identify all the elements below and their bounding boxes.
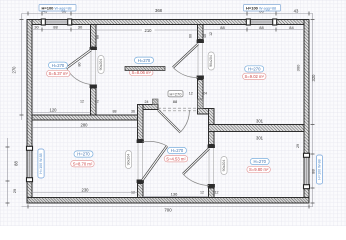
- door D1 swing arc: [67, 68, 92, 85]
- svg-text:12: 12: [215, 191, 219, 195]
- svg-text:88: 88: [311, 169, 316, 174]
- svg-text:301: 301: [256, 136, 264, 141]
- svg-text:368: 368: [155, 8, 163, 13]
- svg-text:88: 88: [113, 110, 117, 114]
- interior wall W2 upper segment: [138, 105, 144, 140]
- svg-text:43: 43: [294, 9, 299, 14]
- top dimension texts: [43, 8, 299, 13]
- svg-text:24: 24: [203, 92, 207, 96]
- svg-text:210: 210: [145, 28, 153, 33]
- interior wall V2 upper segment: [198, 25, 204, 40]
- svg-text:120: 120: [50, 108, 58, 113]
- interior wall H1 horizontal: [32, 115, 138, 120]
- room4 interior dimension texts: [32, 123, 138, 193]
- door D4 swing arc: [183, 174, 209, 186]
- opening D3 jamb hatch right: [198, 99, 204, 109]
- outer wall right: [304, 20, 309, 204]
- svg-text:88: 88: [220, 25, 225, 30]
- interior wall V1 upper segment: [91, 25, 97, 48]
- interior wall H2 horizontal: [209, 125, 305, 132]
- room1 interior dimension bottom: [32, 108, 91, 113]
- svg-text:29: 29: [296, 144, 300, 148]
- svg-text:H=100 W-88: H=100 W-88: [317, 159, 321, 179]
- svg-text:H=100: H=100: [42, 5, 55, 10]
- left upper dimension line: [12, 14, 24, 121]
- room1 interior dimension line top: [32, 25, 91, 32]
- svg-text:24: 24: [145, 100, 149, 104]
- svg-text:36: 36: [131, 110, 135, 114]
- svg-text:90x204: 90x204: [99, 59, 103, 71]
- room5 bottom dimension texts: [131, 191, 219, 197]
- svg-text:12: 12: [200, 191, 204, 195]
- room3 area label: [243, 73, 267, 79]
- svg-text:H=270: H=270: [138, 58, 151, 63]
- room1 area label: [47, 70, 71, 76]
- svg-text:H=270: H=270: [52, 63, 65, 68]
- window W3 left wall: [27, 146, 33, 181]
- beam bar in room 2: [125, 67, 165, 71]
- left lower dimension line: [6, 138, 19, 207]
- interior wall W3 below H2: [209, 132, 215, 145]
- interior wall W3 upper (jog to H2): [209, 109, 215, 125]
- door D3 leaf: [158, 110, 181, 133]
- svg-text:60: 60: [189, 34, 193, 38]
- svg-text:S=5.37 m²: S=5.37 m²: [48, 71, 68, 76]
- room2 interior dimension line: [96, 28, 214, 39]
- interior wall H1b upper ledge: [138, 105, 159, 110]
- svg-text:H=270: H=270: [248, 67, 261, 72]
- svg-text:H=270: H=270: [77, 152, 90, 157]
- door D2 swing arc: [173, 68, 198, 78]
- svg-text:W-agg=88: W-agg=88: [55, 6, 72, 10]
- svg-text:136: 136: [171, 192, 178, 197]
- svg-text:12: 12: [189, 92, 193, 96]
- door D1 jamb caps: [90, 47, 97, 88]
- door D4 leaf: [183, 149, 209, 175]
- interior wall V1 lower segment: [91, 88, 97, 116]
- interior wall jog V2-W3 connector: [198, 109, 215, 115]
- svg-text:88: 88: [259, 25, 264, 30]
- window W1 top-left: [41, 19, 71, 25]
- room6 height label: [250, 158, 269, 164]
- svg-text:88: 88: [173, 99, 178, 104]
- svg-text:300: 300: [296, 64, 301, 71]
- door D5 size label: [125, 151, 131, 169]
- svg-text:H=100 W-88: H=100 W-88: [39, 153, 43, 173]
- svg-text:S=4.53 m²: S=4.53 m²: [166, 156, 186, 161]
- door D5 leaf: [143, 146, 168, 180]
- door D4 size label: [221, 157, 227, 175]
- svg-text:30: 30: [34, 25, 39, 30]
- svg-text:S=9.02 m²: S=9.02 m²: [244, 74, 264, 79]
- door D5 swing arc: [143, 141, 168, 146]
- svg-text:230: 230: [82, 188, 90, 193]
- outer wall left: [27, 20, 32, 204]
- svg-text:12: 12: [80, 100, 84, 104]
- window label box top-left: [39, 5, 76, 12]
- door D4 jamb caps: [208, 145, 215, 188]
- svg-text:12: 12: [209, 32, 213, 36]
- svg-text:270: 270: [12, 66, 17, 74]
- svg-text:12: 12: [95, 100, 99, 104]
- svg-text:H=270: H=270: [171, 148, 184, 153]
- room4 area label: [71, 161, 95, 167]
- svg-text:80: 80: [78, 63, 82, 67]
- opening D3 jamb hatch left: [153, 99, 159, 105]
- svg-text:90x204: 90x204: [126, 154, 130, 166]
- door D1 leaf: [67, 50, 92, 68]
- svg-text:12: 12: [131, 191, 135, 195]
- svg-text:H=270: H=270: [170, 91, 183, 96]
- room1 height label: [49, 62, 68, 68]
- room2 height label: [135, 57, 154, 63]
- svg-text:H=270: H=270: [253, 159, 266, 164]
- svg-text:W-agg=88: W-agg=88: [259, 6, 276, 10]
- room6 dimension texts: [256, 119, 300, 148]
- svg-text:H=100: H=100: [246, 5, 259, 10]
- svg-text:30: 30: [78, 25, 83, 30]
- room6 area label: [247, 166, 271, 172]
- hallway small dimension texts: [78, 63, 208, 114]
- door D3 swing arc: [181, 110, 190, 132]
- room5 height label: [168, 147, 187, 153]
- svg-text:S=8.06 m²: S=8.06 m²: [131, 70, 151, 75]
- svg-text:S=8.70 m²: S=8.70 m²: [73, 161, 93, 166]
- door D1 size label: [98, 56, 104, 74]
- opening D3 dashed line: [158, 108, 198, 111]
- svg-text:88: 88: [53, 25, 58, 30]
- right dimension line: [311, 14, 317, 207]
- svg-text:84: 84: [289, 25, 294, 30]
- svg-text:40: 40: [203, 34, 207, 38]
- svg-text:90x204: 90x204: [209, 55, 213, 67]
- room5 area label: [164, 156, 188, 162]
- door D2 jamb caps: [197, 40, 204, 80]
- svg-text:320: 320: [311, 74, 316, 82]
- interior wall W3 bottom stub: [209, 188, 215, 198]
- window label box top-right: [244, 5, 281, 12]
- top dimension chain: [22, 12, 314, 16]
- window W2 top-right: [246, 19, 276, 25]
- svg-text:301: 301: [256, 119, 264, 124]
- left window size label: [38, 149, 44, 178]
- outer wall bottom: [27, 198, 309, 204]
- right window size label: [316, 155, 322, 184]
- room4 height label: [74, 151, 93, 157]
- room3 height label: [245, 66, 264, 72]
- door D2 leaf: [173, 44, 198, 68]
- opening D3 height label: [168, 91, 183, 97]
- interior wall V2 lower segment: [198, 80, 204, 109]
- door D2 size label: [208, 52, 214, 70]
- svg-text:88: 88: [96, 35, 100, 39]
- svg-text:29: 29: [12, 188, 17, 193]
- interior wall W2 lower segment: [138, 184, 144, 198]
- room2 area label: [130, 69, 154, 75]
- svg-text:700: 700: [164, 208, 172, 213]
- outer wall top: [28, 20, 309, 25]
- room3 interior dimension line: [203, 25, 304, 72]
- window W4 right wall: [304, 153, 310, 188]
- svg-text:S=9.80 m²: S=9.80 m²: [249, 167, 269, 172]
- svg-text:90x204: 90x204: [222, 160, 226, 172]
- svg-text:88: 88: [14, 161, 19, 166]
- door D5 jamb caps: [137, 140, 144, 184]
- bottom dimension chain: [22, 205, 314, 213]
- svg-text:280: 280: [81, 123, 89, 128]
